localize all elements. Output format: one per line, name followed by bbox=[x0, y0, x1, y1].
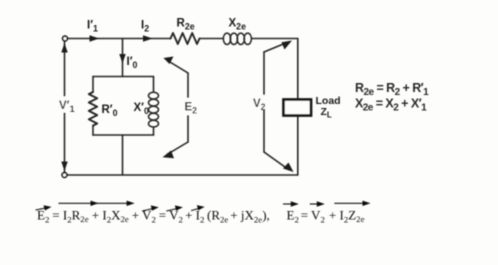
svg-text:I′0: I′0 bbox=[127, 56, 138, 70]
svg-text:X′0: X′0 bbox=[134, 102, 149, 116]
svg-text:= I2R2e: = I2R2e bbox=[52, 207, 88, 224]
svg-text:E2: E2 bbox=[287, 208, 299, 225]
svg-text:I2: I2 bbox=[141, 20, 149, 34]
svg-text:+ I2X2e: + I2X2e bbox=[92, 207, 129, 224]
svg-text:ZL: ZL bbox=[321, 106, 332, 120]
svg-text:+ I2Z2e: + I2Z2e bbox=[329, 207, 365, 224]
svg-text:R′0: R′0 bbox=[102, 104, 118, 118]
svg-text:I′1: I′1 bbox=[87, 20, 98, 34]
svg-text:E2: E2 bbox=[37, 208, 49, 225]
svg-text:Load: Load bbox=[316, 95, 341, 107]
svg-text:X2e: X2e bbox=[229, 18, 247, 32]
svg-text:(R2e: (R2e bbox=[207, 208, 228, 225]
svg-text:+ jX2e),: + jX2e), bbox=[230, 207, 269, 224]
svg-text:X2e = X2 + X′1: X2e = X2 + X′1 bbox=[355, 97, 427, 114]
svg-text:= V2: = V2 bbox=[301, 208, 325, 225]
svg-text:R2e: R2e bbox=[177, 18, 195, 32]
